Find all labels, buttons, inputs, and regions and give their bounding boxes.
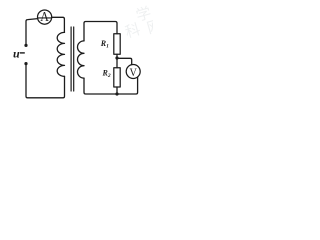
wire: through ammeter [38,17,52,19]
wire: primary coil bottom to bottom-left [26,64,65,98]
svg-text:u: u [13,47,20,61]
node: R1-R2 junction [115,56,118,59]
svg-text:A: A [40,10,49,25]
wire: secondary top to R1 [84,22,117,41]
transformer core [70,27,72,91]
svg-text:V: V [130,65,138,79]
node: bottom junction [115,92,118,95]
node: source top terminal [24,44,27,47]
wire: R1 bottom to junction [116,54,118,67]
svg-text:R1: R1 [100,39,109,50]
ammeter A body [38,10,52,24]
wire: bottom of secondary loop [84,77,138,94]
label dash after u [20,52,25,53]
voltmeter V body [126,65,140,79]
node: source bottom terminal [24,62,27,65]
watermark [120,2,164,43]
svg-text:R2: R2 [102,69,111,80]
wire: ammeter right to transformer primary top [52,17,65,32]
resistor R2 body [114,68,120,87]
wire: left loop top (source top terminal to ammeter) [26,19,38,45]
wire: R2 bottom to bottom node [116,87,118,94]
svg-text:网: 网 [145,18,153,38]
inductor L2 secondary coil [78,41,85,78]
inductor L1 primary coil [57,32,64,76]
resistor R1 body [114,34,120,55]
wire: junction to voltmeter [117,58,132,64]
